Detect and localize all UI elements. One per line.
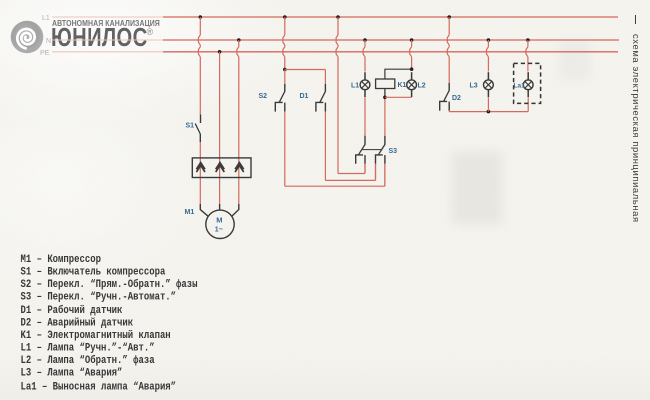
label S3 [389,148,398,155]
switch D1 [316,84,326,112]
wire lamp L1 to S3 [364,97,366,135]
node junction below L3 [487,110,491,114]
wire S3 right throw bottom [375,164,377,181]
wire S2 bottom to S3 pole [285,112,385,187]
node junction on N at x=411.6 [410,38,414,42]
switch D2 [440,83,450,111]
motor lead right [232,204,239,216]
net label N [46,38,51,45]
svg-text:L2: L2 [418,83,426,90]
wire D2 bottom rail [449,111,528,112]
faint bleed-through ghost block 2 [560,40,590,80]
wire La1 bottom [527,97,529,111]
svg-text:S3: S3 [389,148,398,155]
wire tap to S2 [284,70,286,85]
vertical title: schematic diagram [631,34,642,223]
contactor contact chevron 2 [216,163,225,172]
wire L1 drop to S3 left pole [336,17,365,174]
svg-text:S1: S1 [186,123,195,130]
label D2 [452,95,461,102]
wire N drop to L2 [410,40,412,69]
switch S2 [275,84,285,112]
svg-text:M: M [216,216,222,225]
node junction on N at x=488.4 [487,38,491,42]
node junction on L1 at x=449.2 [447,15,451,19]
wire S3 left pole bottom [364,164,366,174]
node junction on L1 at x=200 [199,15,203,19]
label D1 [300,93,309,100]
motor lead middle [219,204,221,210]
svg-text:M1: M1 [185,209,195,216]
contactor contact chevron 3 [235,163,244,172]
wire S1 to contactor box [199,142,201,158]
svg-text:S2: S2 [259,93,268,100]
svg-text:1~: 1~ [215,227,223,234]
node junction on L1 at x=338 [336,15,340,19]
wire leg L1 to S1 [198,17,200,115]
svg-text:L1: L1 [42,15,50,22]
faint bleed-through ghost block [452,152,502,224]
logo tagline [52,18,160,28]
label La1 [514,83,526,90]
switch S3 right pole [376,136,385,164]
node junction on PE at x=219.5 [218,50,222,54]
switch S1 [195,115,200,143]
node junction S2/D1 tap [283,68,287,72]
node junction on N at x=527.9 [526,38,530,42]
wire S3 right top to K1 junction [384,97,386,135]
UNILOS logo spiral icon [10,20,44,54]
wire D1 top drop [324,70,326,85]
motor letter M [216,216,222,225]
wire K1 bottom stub [384,89,386,97]
node junction on N at x=238.5 [237,38,241,42]
net label L1 [42,15,50,22]
wire rail N (neutral) [163,39,619,41]
contactor contact chevron 1 [196,163,205,172]
relay coil K1 [376,79,395,89]
switch S3 left pole [356,136,365,164]
wire N drop to lamp L1 [363,40,365,72]
switch S3 link bar [361,149,381,151]
logo wordmark [51,24,148,53]
net label PE [40,50,50,57]
wire N drop to La1 [526,40,528,72]
node junction on L1 at x=284.8 [283,15,287,19]
wire L1 drop to D2 [447,17,449,83]
label K1 [398,82,407,89]
svg-text:D1: D1 [300,93,309,100]
wire rail L1 pale left segment [52,16,163,18]
svg-text:L3: L3 [470,83,478,90]
label L1 [351,83,359,90]
wire rail PE (earth) [163,51,618,53]
label S2 [259,93,268,100]
svg-text:L1: L1 [351,83,359,90]
label L2 [418,83,426,90]
wire L3 bottom [487,97,489,111]
label L3 [470,83,478,90]
wire K1 to L2 bottom [385,96,412,98]
svg-text:N: N [46,38,51,45]
svg-text:D2: D2 [452,95,461,102]
wire rail PE pale left segment [52,51,163,53]
motor M1 circle [206,210,234,238]
lamp L1 [360,72,370,97]
label M1 [185,209,195,216]
node junction on N at x=365 [363,38,367,42]
wire L1 drop to S2 [283,17,285,70]
registered trademark [147,27,154,37]
lamp L2 [407,72,417,97]
wire leg3 through contactor [238,158,240,205]
wire rail L1 (phase) [163,16,618,18]
wire rail N pale left segment [52,39,163,41]
legend text block [21,253,198,393]
wire D1 bottom to S3 throw [325,112,375,181]
node junction above L2 [410,67,414,71]
contactor box [192,158,251,178]
svg-text:PE: PE [40,50,50,57]
motor lead left [200,204,208,216]
wire S3 right pole bottom [384,164,386,186]
wire leg PE to contactor box [219,52,221,158]
remote lamp dashed enclosure [514,63,541,103]
motor text 1~ [215,227,223,234]
title block dash [635,15,637,24]
svg-text:K1: K1 [398,82,407,89]
label S1 [186,123,195,130]
wire N drop to L3 [487,40,489,72]
wire S2-D1 top link [285,69,326,71]
wire leg N to contactor box [237,40,239,158]
lamp L3 [484,72,494,97]
wire K1 top link [385,69,412,79]
svg-text:La1: La1 [514,83,526,90]
wire leg2 through contactor [219,158,221,205]
node junction below K1 [383,96,387,100]
lamp La1 [523,72,533,97]
wire leg1 through contactor [199,158,201,205]
